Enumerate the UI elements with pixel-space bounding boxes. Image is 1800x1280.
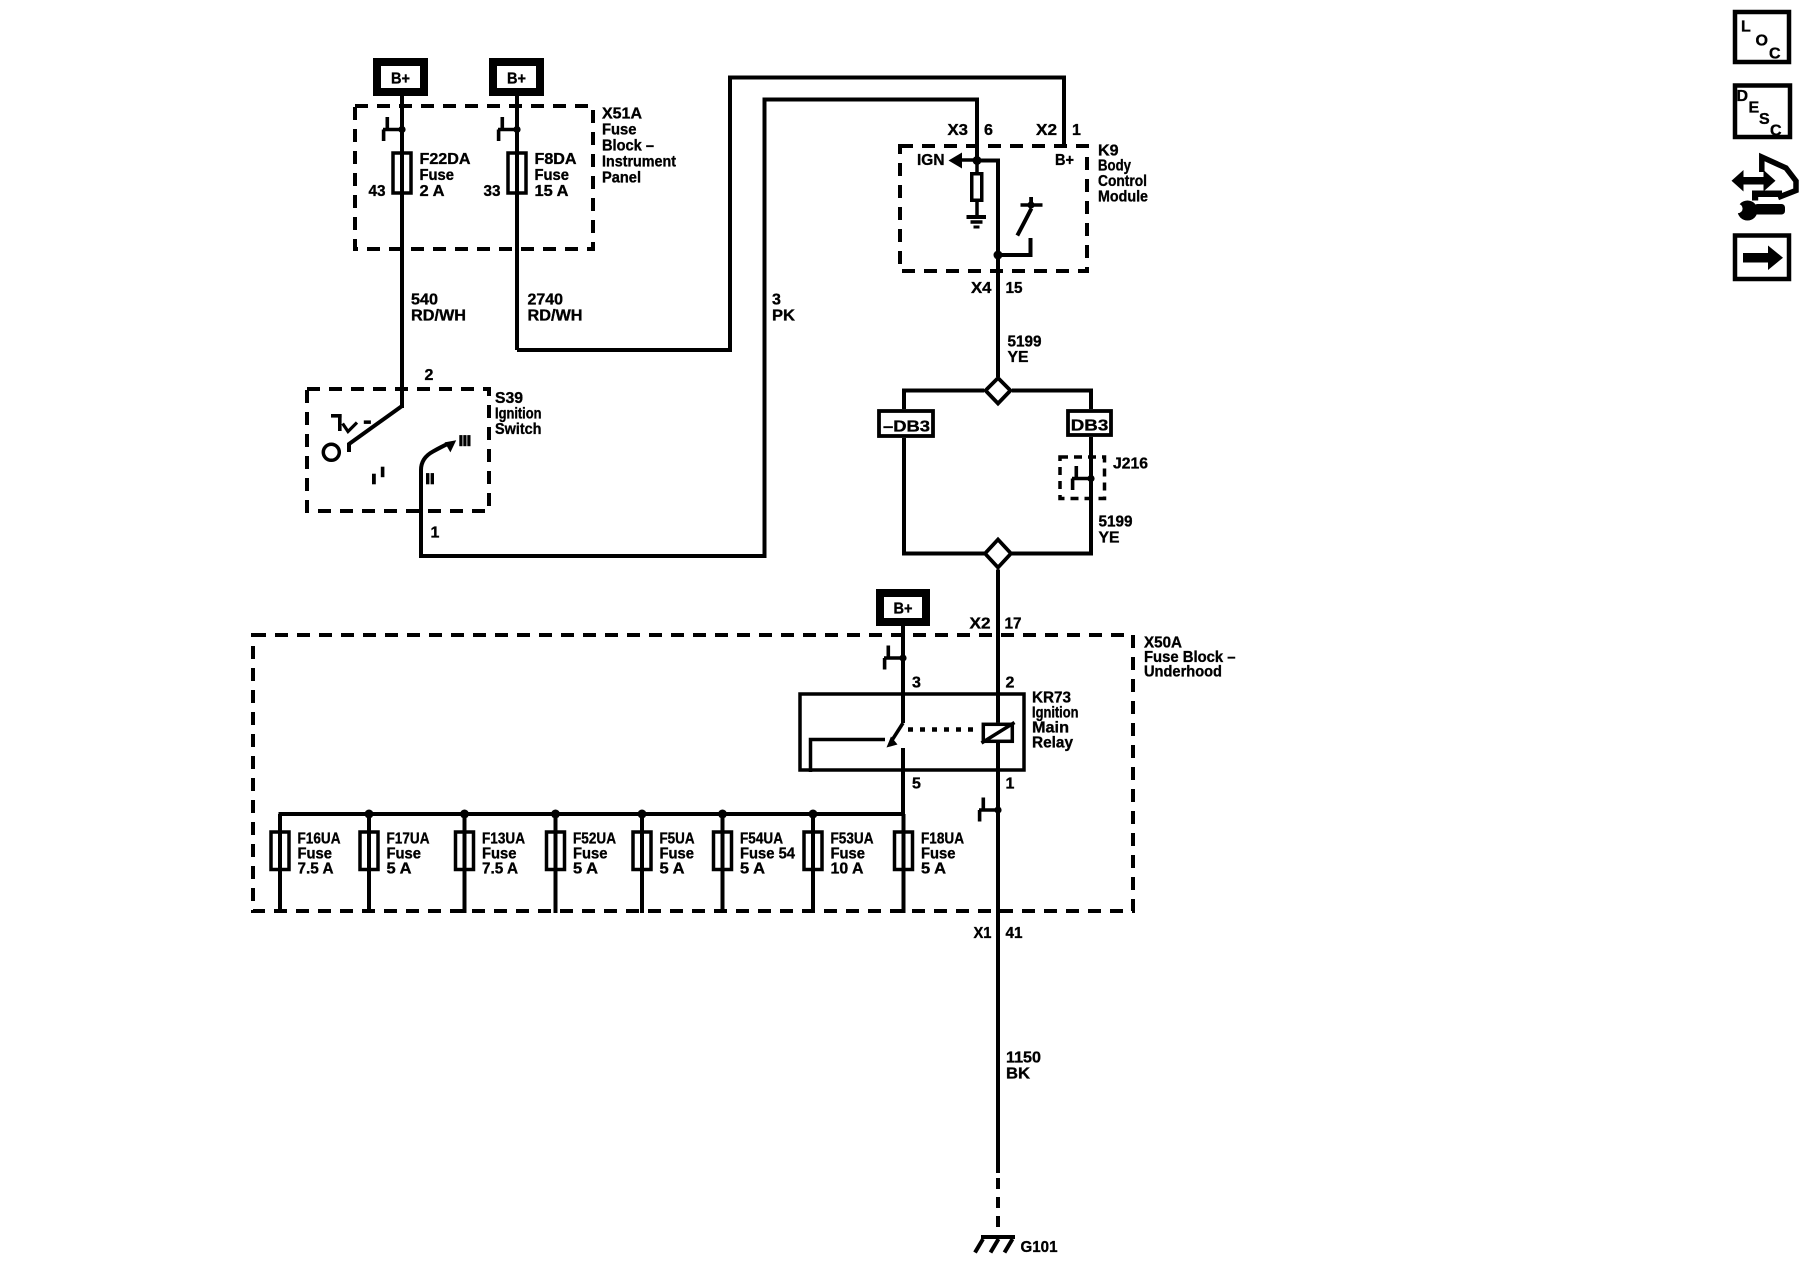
svg-text:15: 15 [1006,280,1023,297]
svg-text:17: 17 [1005,616,1022,633]
wire 540 RD/WH label [411,292,466,325]
wire 2740 RD/WH label [528,292,583,325]
terminal clip at F8DA input [497,117,521,141]
svg-text:C: C [1770,123,1782,140]
resistor BCM internal [972,161,982,216]
svg-text:O: O [1756,33,1768,50]
svg-text:1: 1 [1006,776,1015,793]
pin X1 41 labels [974,925,1023,942]
svg-text:IGN: IGN [917,152,945,169]
label X51A Fuse Block - Instrument Panel [602,106,677,187]
svg-text:PK: PK [772,308,795,325]
svg-text:Control: Control [1098,173,1147,190]
position mark I [372,467,384,485]
terminal clip at F22DA input [382,117,406,141]
junction dot at BCM pin 15 branch [994,251,1003,260]
ignition switch wiper blade from pin 2 [349,406,402,452]
fuse block X50A dashed outline [253,635,1133,911]
label KR73 Ignition Main Relay [1032,690,1079,752]
svg-text:15 A: 15 A [535,183,569,200]
svg-text:3: 3 [912,675,921,692]
junction dot on fuse bus at x=369 [365,810,374,819]
pin X4 15 labels [971,280,1023,297]
terminal clip below B+ (X50A) [883,646,907,670]
svg-text:5 A: 5 A [740,861,765,878]
svg-text:1150: 1150 [1006,1050,1041,1067]
dashed wire segment to ground G101 [996,1178,1000,1234]
inline connector J216 dashed outline [1060,457,1105,499]
svg-text:6: 6 [984,122,993,139]
svg-text:2 A: 2 A [420,183,445,200]
ignition switch detent mark v [343,423,357,432]
svg-text:5: 5 [912,776,921,793]
svg-text:3: 3 [772,292,781,309]
module K9 Body Control Module dashed outline [900,146,1087,271]
svg-text:10 A: 10 A [831,861,864,878]
label K9 Body Control Module [1098,143,1148,206]
relay coil [982,723,1015,744]
svg-text:F22DA: F22DA [420,151,471,168]
svg-text:2: 2 [1006,675,1015,692]
junction dot at IGN node [973,156,982,165]
ignition switch START contact arm with arrowhead [421,440,456,470]
svg-text:41: 41 [1006,925,1023,942]
svg-text:RD/WH: RD/WH [528,308,583,325]
junction dot on fuse bus at x=642 [638,810,647,819]
wire relay pin 5 to fuse bus [901,748,905,814]
fuse block X51A dashed outline [355,106,593,249]
pin X2 1 labels [1036,122,1081,139]
power symbol B+ feed 1 (to fuse F22DA) [377,62,424,92]
fuse F18UA 5 A [895,814,965,913]
ground BCM internal [967,217,987,227]
label S39 Ignition Switch [495,390,542,438]
svg-text:7.5 A: 7.5 A [482,861,518,878]
svg-text:5 A: 5 A [660,861,685,878]
svg-text:Relay: Relay [1032,735,1073,752]
svg-text:X2: X2 [1036,122,1057,139]
label F22DA Fuse 2 A [420,151,471,200]
icon forward arrow button [1735,236,1789,280]
svg-text:S39: S39 [495,390,523,407]
terminal clip at relay pin 1 output [978,798,1002,822]
svg-text:2: 2 [425,367,434,384]
position mark II [426,473,434,484]
off-page connector diamond (bottom) [985,540,1011,568]
svg-text:J216: J216 [1113,456,1148,473]
svg-text:DB3: DB3 [1071,418,1109,435]
svg-text:F8DA: F8DA [535,151,577,168]
svg-text:Ignition: Ignition [495,406,542,423]
svg-text:Instrument: Instrument [602,154,677,171]
svg-text:X2: X2 [970,616,991,633]
wire IGN branch to internal switch [977,161,998,256]
fuse F17UA 5 A [360,814,430,913]
ignition switch detent dash mark [364,420,371,424]
position mark III [459,435,470,446]
svg-text:33: 33 [484,183,501,200]
icon DESC button [1735,86,1790,140]
wire B+2 down to fuse F8DA [515,96,519,350]
wire from bottom diamond to relay KR73 coil (pin X2-17) [996,570,1000,1174]
svg-text:YE: YE [1008,349,1029,366]
wire 2740 RD/WH from F8DA to BCM X2-1 [517,78,1064,351]
ignition switch S39 dashed outline [307,389,489,511]
svg-text:5199: 5199 [1008,334,1042,351]
wire B+ to relay pin 3 [901,622,905,723]
fuse F13UA 7.5 A [456,814,526,913]
fuse F22DA [393,153,411,193]
svg-text:X3: X3 [948,122,969,139]
terminal clip of J216 [1071,466,1095,490]
svg-text:X4: X4 [971,280,992,297]
wire from switch to junction [998,238,1031,255]
BCM internal switch fixed contact [1021,197,1043,209]
svg-text:Fuse: Fuse [420,167,455,184]
svg-text:Fuse: Fuse [535,167,570,184]
svg-text:1: 1 [431,525,440,542]
pin X2 17 labels of X50A [970,616,1022,633]
wire 1150 BK label [1006,1050,1041,1083]
wire 3 PK label [772,292,795,325]
relay actuation dotted link [908,727,979,732]
svg-text:YE: YE [1099,530,1120,547]
svg-text:1: 1 [1072,122,1081,139]
fuse F5UA 5 A [633,814,695,913]
off-page reference DB3 [1068,411,1111,435]
svg-text:S: S [1759,111,1770,128]
svg-text:Body: Body [1098,158,1131,175]
svg-text:Switch: Switch [495,421,542,438]
fuse F52UA 5 A [547,814,617,913]
svg-text:E: E [1749,100,1760,117]
icon LOC button [1735,12,1789,63]
svg-text:5 A: 5 A [573,861,598,878]
ignition switch LOCK position mark [331,414,342,431]
fuse F53UA 10 A [804,814,874,913]
junction dot on fuse bus at x=722.5 [718,810,727,819]
off-page connector diamond (top) [986,378,1011,404]
icon diagnostic arrows and wrench [1732,157,1797,221]
junction dot on fuse bus at x=813 [809,810,818,819]
fuse F54UA 5 A [714,814,796,913]
svg-text:B+: B+ [391,71,410,88]
svg-text:5199: 5199 [1099,514,1133,531]
relay switch fixed contact wire [811,740,886,773]
svg-text:X1: X1 [974,925,992,942]
wire 3 PK from ignition switch pin 1 to BCM X3-6 [421,100,977,557]
fuse F16UA 7.5 A [271,814,341,913]
pin X3 6 labels [948,122,994,139]
svg-text:X51A: X51A [602,106,642,123]
svg-text:B+: B+ [894,601,913,618]
power symbol B+ feed 2 (to fuse F8DA) [493,62,540,92]
junction dot on fuse bus at x=464.5 [460,810,469,819]
svg-text:RD/WH: RD/WH [411,308,466,325]
power symbol B+ feed (X50A) [880,593,926,622]
svg-text:5 A: 5 A [387,861,412,878]
svg-text:BK: BK [1006,1066,1030,1083]
svg-text:5 A: 5 A [921,861,946,878]
svg-text:Panel: Panel [602,170,641,187]
svg-text:–DB3: –DB3 [883,419,930,436]
wire 5199 YE from BCM X4-15 to top splice diamond [996,255,1000,377]
svg-text:D: D [1737,88,1749,105]
svg-text:Block –: Block – [602,138,654,155]
net IGN arrow and label [917,152,977,169]
ground G101 symbol [975,1237,1015,1253]
svg-text:G101: G101 [1021,1239,1058,1256]
wire 5199 YE upper label [1008,334,1042,367]
svg-text:L: L [1741,19,1751,36]
svg-text:2740: 2740 [528,292,564,309]
svg-text:43: 43 [369,183,386,200]
svg-text:B+: B+ [1055,152,1074,169]
junction dot on fuse bus at x=555.5 [551,810,560,819]
label X50A Fuse Block - Underhood [1144,635,1236,681]
wire 5199 YE lower label [1099,514,1133,547]
relay switch blade with arrowhead [887,723,904,748]
off-page reference -DB3 [879,411,933,436]
BCM internal switch blade [1017,209,1031,236]
wire B+1 down through fuse F22DA to ignition switch pin 2 [400,96,404,408]
label F8DA Fuse 15 A [535,151,577,200]
wire to off-page reference -DB3 [904,391,984,554]
svg-text:B+: B+ [507,71,526,88]
svg-text:540: 540 [411,292,438,309]
relay KR73 outline [800,694,1024,770]
svg-text:7.5 A: 7.5 A [298,861,334,878]
svg-text:Fuse: Fuse [602,122,637,139]
wire to off-page reference DB3 [1012,391,1091,554]
svg-text:Module: Module [1098,189,1148,206]
svg-text:C: C [1769,46,1781,63]
svg-text:Underhood: Underhood [1144,664,1222,681]
ignition switch rotor circle [323,444,339,460]
fuse supply bus wire [279,812,904,816]
fuse F8DA [508,153,526,193]
